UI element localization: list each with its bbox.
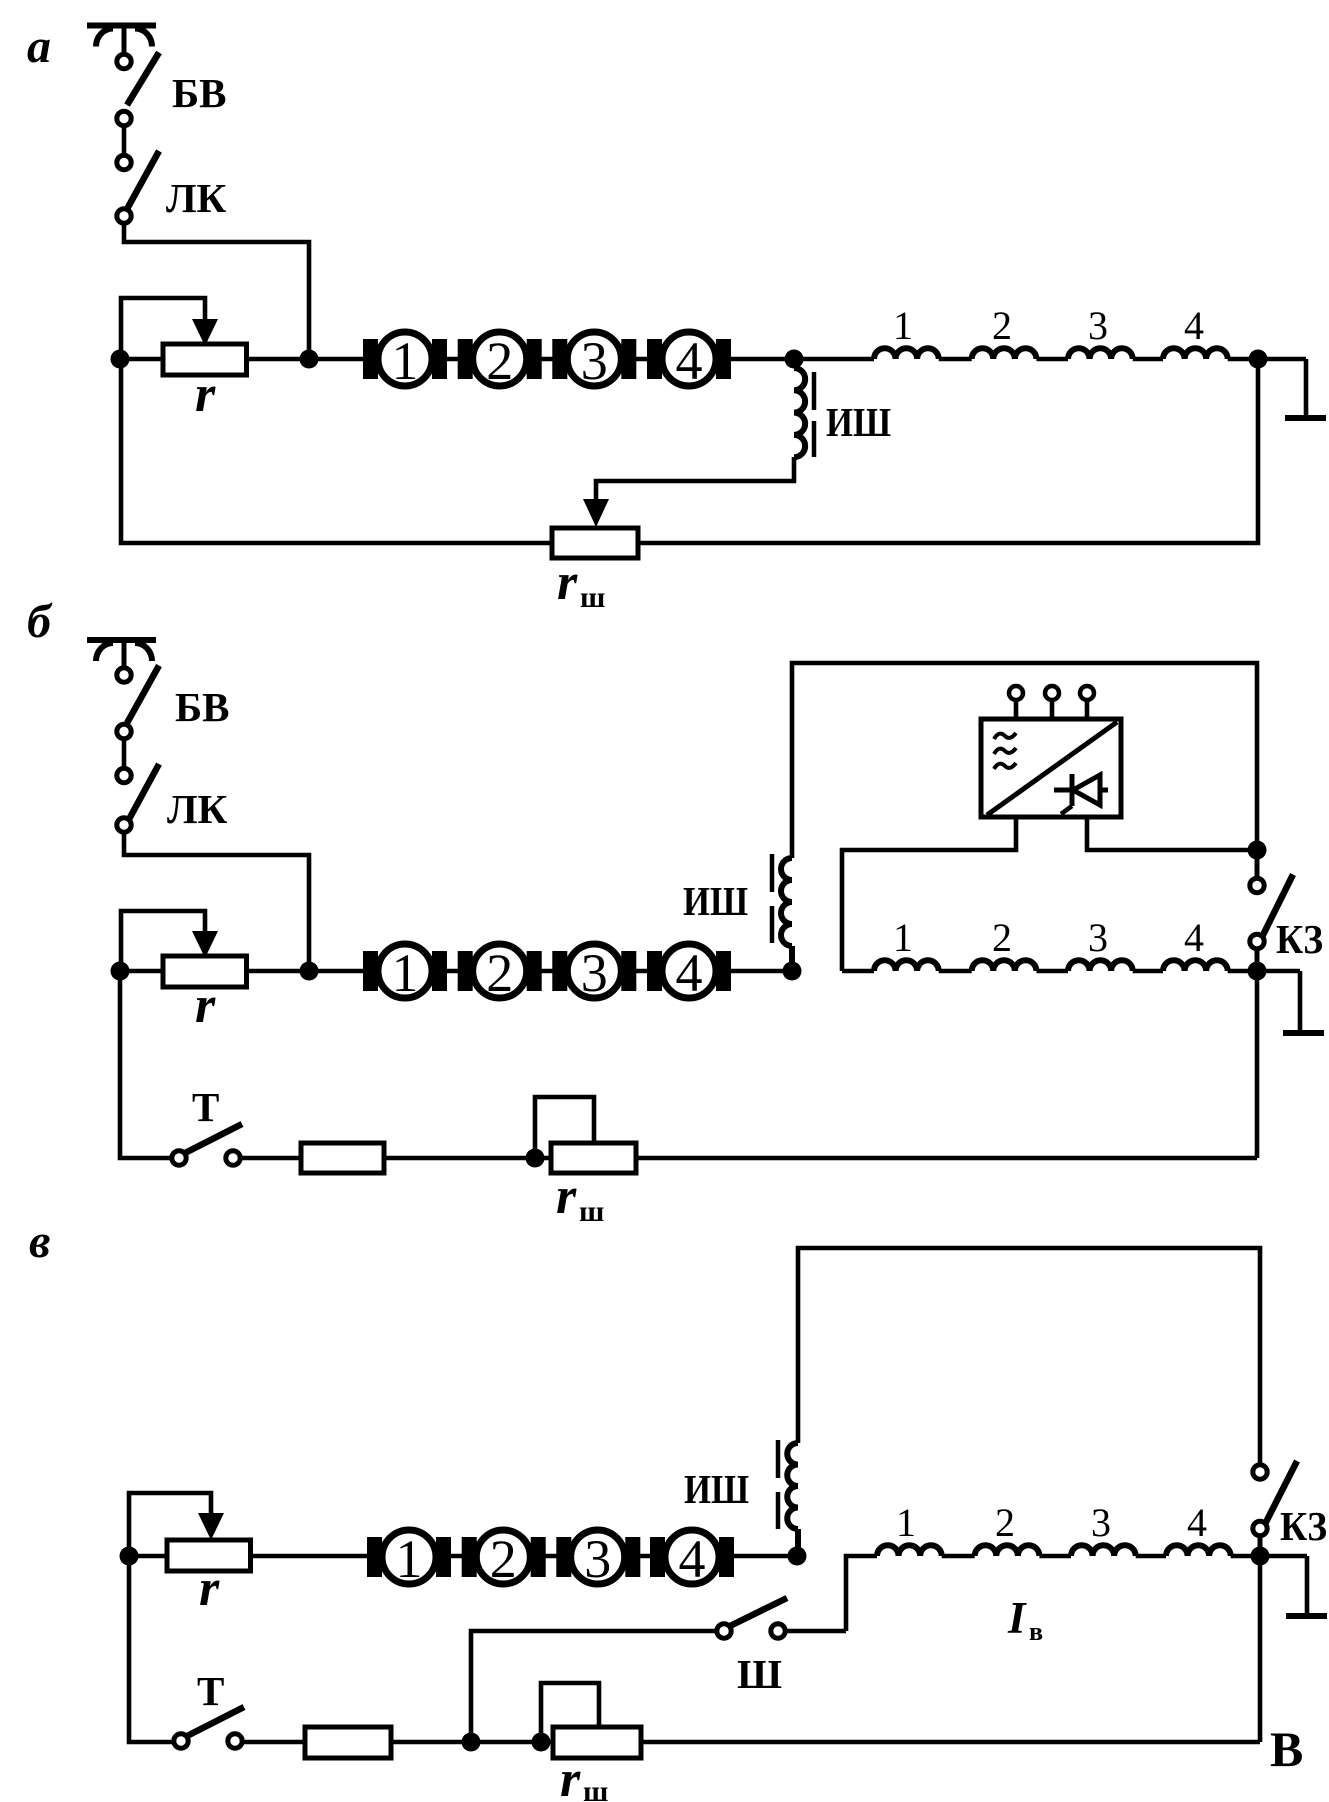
wire (part б) bbox=[1133, 969, 1163, 974]
svg-text:БВ: БВ bbox=[172, 70, 226, 116]
svg-text:3: 3 bbox=[1088, 915, 1108, 960]
svg-text:3: 3 bbox=[581, 943, 608, 1003]
ground (part в) bbox=[1260, 1556, 1307, 1616]
wire bottom brake loop right (part в) bbox=[242, 1740, 1260, 1745]
node motor4 / ИШ tap (part б) bbox=[783, 962, 802, 981]
svg-text:ИШ: ИШ bbox=[684, 1466, 749, 1512]
wire rectifier left lead to winding (part б) bbox=[842, 817, 1016, 971]
motor 1 (part в) bbox=[367, 1530, 451, 1584]
svg-text:ЛК: ЛК bbox=[167, 786, 228, 832]
svg-text:КЗ: КЗ bbox=[1280, 1503, 1327, 1549]
node r_ш tap (part в) bbox=[532, 1733, 551, 1752]
wire right vertical down (part б) bbox=[1255, 971, 1260, 1158]
node КЗ top (part б) bbox=[1248, 841, 1267, 860]
svg-text:1: 1 bbox=[896, 1500, 916, 1545]
field winding section 4 (part в) bbox=[1166, 1545, 1231, 1556]
motor 2 (part в) bbox=[462, 1530, 546, 1584]
svg-text:2: 2 bbox=[486, 331, 513, 391]
wire winding line left (part б) bbox=[842, 969, 874, 974]
pantograph (current collector), part б bbox=[87, 640, 156, 666]
svg-text:1: 1 bbox=[893, 303, 913, 348]
svg-text:r: r bbox=[199, 1560, 220, 1617]
svg-text:r: r bbox=[195, 977, 216, 1034]
svg-text:2: 2 bbox=[490, 1529, 517, 1589]
node motor4 / ИШ tap (part в) bbox=[788, 1547, 807, 1566]
node junction ЛК / main line (part a) bbox=[300, 350, 319, 369]
ground (part a) bbox=[1258, 359, 1306, 418]
rectifier terminal 1 (part б) bbox=[1009, 686, 1023, 700]
svg-text:3: 3 bbox=[1088, 303, 1108, 348]
node left main (part a) bbox=[111, 350, 130, 369]
core bars of ИШ (part a) bbox=[812, 372, 817, 457]
switch БВ (part б) bbox=[117, 666, 159, 739]
inductive shunt ИШ coil (part a) bbox=[794, 368, 805, 457]
switch БВ (part a) bbox=[117, 53, 159, 126]
rheostat r (part в) bbox=[167, 1540, 251, 1571]
svg-text:В: В bbox=[1270, 1721, 1303, 1777]
rheostat r (part a) bbox=[163, 344, 247, 375]
field winding section 1 (part в) bbox=[877, 1545, 942, 1556]
ground (part б) bbox=[1257, 971, 1300, 1033]
motor 4 (part в) bbox=[650, 1530, 734, 1584]
brake resistor (part б) bbox=[301, 1143, 384, 1173]
field winding section 3 (part a) bbox=[1068, 348, 1133, 359]
switch ЛК (part б) bbox=[117, 764, 159, 832]
wire left vertical to brake loop (part б) bbox=[120, 971, 172, 1158]
wire left vertical to brake loop (part в) bbox=[129, 1556, 174, 1742]
svg-text:б: б bbox=[27, 595, 53, 648]
wire main line (part б) bbox=[120, 969, 792, 974]
pantograph (current collector), part a bbox=[87, 26, 156, 53]
svg-text:3: 3 bbox=[584, 1529, 611, 1589]
field winding section 2 (part a) bbox=[972, 348, 1037, 359]
switch Ш (part в) bbox=[717, 1598, 787, 1638]
node left main (part в) bbox=[120, 1547, 139, 1566]
node r_ш tap (part б) bbox=[526, 1149, 545, 1168]
svg-text:а: а bbox=[27, 20, 51, 73]
node right main (part в) bbox=[1251, 1547, 1270, 1566]
wiper arrow of rheostat r (part в) bbox=[129, 1493, 211, 1556]
svg-text:в: в bbox=[29, 1215, 50, 1268]
svg-text:Т: Т bbox=[197, 1668, 224, 1714]
svg-text:r: r bbox=[560, 1751, 581, 1802]
svg-text:4: 4 bbox=[1184, 303, 1204, 348]
svg-text:КЗ: КЗ bbox=[1276, 916, 1323, 962]
rectifier diagonal (part б) bbox=[987, 722, 1117, 815]
svg-text:4: 4 bbox=[679, 1529, 706, 1589]
wire winding feed from Ш branch (part в) bbox=[846, 1556, 877, 1631]
wire rectifier right lead to КЗ node (part б) bbox=[1087, 817, 1257, 850]
field winding section 2 (part б) bbox=[972, 960, 1037, 971]
wire main line (part в) bbox=[129, 1554, 797, 1559]
switch КЗ (part в) bbox=[1253, 1461, 1297, 1549]
svg-text:1: 1 bbox=[396, 1529, 423, 1589]
field winding section 1 (part a) bbox=[874, 348, 939, 359]
wire (part a) bbox=[1133, 357, 1163, 362]
svg-text:1: 1 bbox=[893, 915, 913, 960]
svg-text:r: r bbox=[557, 554, 578, 611]
shunt rheostat r_ш (part в) bbox=[553, 1727, 641, 1758]
motor 1 (part a) bbox=[363, 332, 447, 386]
node right main (part б) bbox=[1248, 962, 1267, 981]
wiper arrow of rheostat r (part б) bbox=[121, 911, 205, 971]
wire (part б) bbox=[1228, 969, 1257, 974]
wire ЛК down to main line (part б) bbox=[124, 834, 309, 971]
field winding section 4 (part a) bbox=[1163, 348, 1228, 359]
rectifier AC marks (part б) bbox=[994, 733, 1016, 769]
inductive shunt ИШ coil (part б) bbox=[781, 858, 792, 971]
node Ш branch (part в) bbox=[462, 1733, 481, 1752]
wire right vertical down (part в) bbox=[1258, 1556, 1263, 1742]
svg-text:3: 3 bbox=[1091, 1500, 1111, 1545]
shunt rheostat r_ш (part б) bbox=[551, 1143, 636, 1173]
switch КЗ (part б) bbox=[1250, 858, 1293, 962]
motor 2 (part a) bbox=[458, 332, 542, 386]
brake resistor (part в) bbox=[305, 1727, 391, 1758]
wire (part в) bbox=[1039, 1554, 1071, 1559]
motor 3 (part в) bbox=[556, 1530, 640, 1584]
wire (part в) bbox=[1231, 1554, 1260, 1559]
field winding section 3 (part б) bbox=[1068, 960, 1133, 971]
svg-text:2: 2 bbox=[992, 915, 1012, 960]
wire Ш branch (part в) bbox=[471, 1631, 717, 1742]
wire БВ to ЛК (part б) bbox=[122, 741, 127, 766]
core bars of ИШ (part в) bbox=[776, 1440, 781, 1529]
svg-text:2: 2 bbox=[486, 943, 513, 1003]
node right main (part a) bbox=[1249, 350, 1268, 369]
rectifier terminal 2 (part б) bbox=[1045, 686, 1059, 700]
svg-text:Ш: Ш bbox=[737, 1651, 782, 1697]
wire (part б) bbox=[1036, 969, 1068, 974]
field winding section 1 (part б) bbox=[874, 960, 939, 971]
wire main line (part a) bbox=[120, 357, 874, 362]
svg-text:ИШ: ИШ bbox=[826, 399, 891, 445]
shunt rheostat r_ш (part a) bbox=[552, 528, 638, 558]
node left main (part б) bbox=[111, 962, 130, 981]
svg-text:ш: ш bbox=[579, 1195, 604, 1228]
wire Ш to winding branch (part в) bbox=[785, 1629, 846, 1634]
rectifier diode symbol (part б) bbox=[1054, 774, 1108, 814]
svg-text:ИШ: ИШ bbox=[683, 878, 748, 924]
svg-text:I: I bbox=[1007, 1593, 1027, 1643]
wiper arrow of rheostat r (part a) bbox=[121, 298, 205, 359]
node junction ЛК / main line (part б) bbox=[300, 962, 319, 981]
rectifier unit box (part б) bbox=[981, 719, 1121, 817]
svg-text:в: в bbox=[1029, 1617, 1043, 1646]
switch Т (part в) bbox=[174, 1707, 244, 1748]
svg-text:БВ: БВ bbox=[175, 684, 229, 730]
motor 2 (part б) bbox=[458, 944, 542, 998]
svg-text:ш: ш bbox=[580, 581, 605, 614]
wire ИШ to r_ш wiper (part a) bbox=[596, 457, 794, 501]
motor 4 (part б) bbox=[647, 944, 731, 998]
rectifier terminal 3 (part б) bbox=[1080, 686, 1094, 700]
svg-text:r: r bbox=[195, 366, 216, 423]
wire ИШ up and over to rectifier node (part б) bbox=[792, 663, 1257, 858]
svg-text:ЛК: ЛК bbox=[166, 175, 227, 221]
tap loop of r_ш (part б) bbox=[535, 1097, 594, 1158]
svg-text:r: r bbox=[556, 1168, 577, 1225]
wire (part a) bbox=[1228, 357, 1258, 362]
wire (part б) bbox=[939, 969, 972, 974]
svg-text:2: 2 bbox=[995, 1500, 1015, 1545]
wire (part в) bbox=[1136, 1554, 1166, 1559]
motor 3 (part б) bbox=[552, 944, 636, 998]
wire ИШ up and over to КЗ (part в) bbox=[798, 1248, 1260, 1465]
svg-text:4: 4 bbox=[1187, 1500, 1207, 1545]
field winding section 3 (part в) bbox=[1071, 1545, 1136, 1556]
svg-text:4: 4 bbox=[676, 943, 703, 1003]
svg-text:1: 1 bbox=[392, 331, 419, 391]
rheostat r (part б) bbox=[163, 956, 247, 987]
motor 3 (part a) bbox=[552, 332, 636, 386]
field winding section 2 (part в) bbox=[975, 1545, 1040, 1556]
motor 4 (part a) bbox=[647, 332, 731, 386]
svg-text:2: 2 bbox=[992, 303, 1012, 348]
core bars of ИШ (part б) bbox=[770, 854, 775, 943]
wire bottom brake loop right (part б) bbox=[240, 1156, 1257, 1161]
node motor4 / ИШ tap (part a) bbox=[785, 350, 804, 369]
svg-text:1: 1 bbox=[392, 943, 419, 1003]
wire bottom return loop (part a) bbox=[121, 359, 1258, 543]
wire БВ to ЛК (part a) bbox=[122, 128, 127, 154]
inductive shunt ИШ coil (part в) bbox=[787, 1443, 798, 1552]
tap loop of r_ш (part в) bbox=[541, 1683, 599, 1742]
field winding section 4 (part б) bbox=[1163, 960, 1228, 971]
wire ЛК down to main line (part a) bbox=[124, 225, 309, 359]
svg-text:3: 3 bbox=[581, 331, 608, 391]
motor 1 (part б) bbox=[363, 944, 447, 998]
svg-text:ш: ш bbox=[583, 1775, 608, 1802]
wire (part в) bbox=[942, 1554, 975, 1559]
switch ЛК (part a) bbox=[117, 151, 159, 223]
svg-text:4: 4 bbox=[676, 331, 703, 391]
svg-text:Т: Т bbox=[192, 1084, 219, 1130]
switch Т (part б) bbox=[172, 1124, 242, 1165]
svg-text:4: 4 bbox=[1184, 915, 1204, 960]
wire (part a) bbox=[939, 357, 972, 362]
wire (part a) bbox=[1036, 357, 1068, 362]
wiper arrow of r_ш (part a) bbox=[583, 499, 609, 527]
